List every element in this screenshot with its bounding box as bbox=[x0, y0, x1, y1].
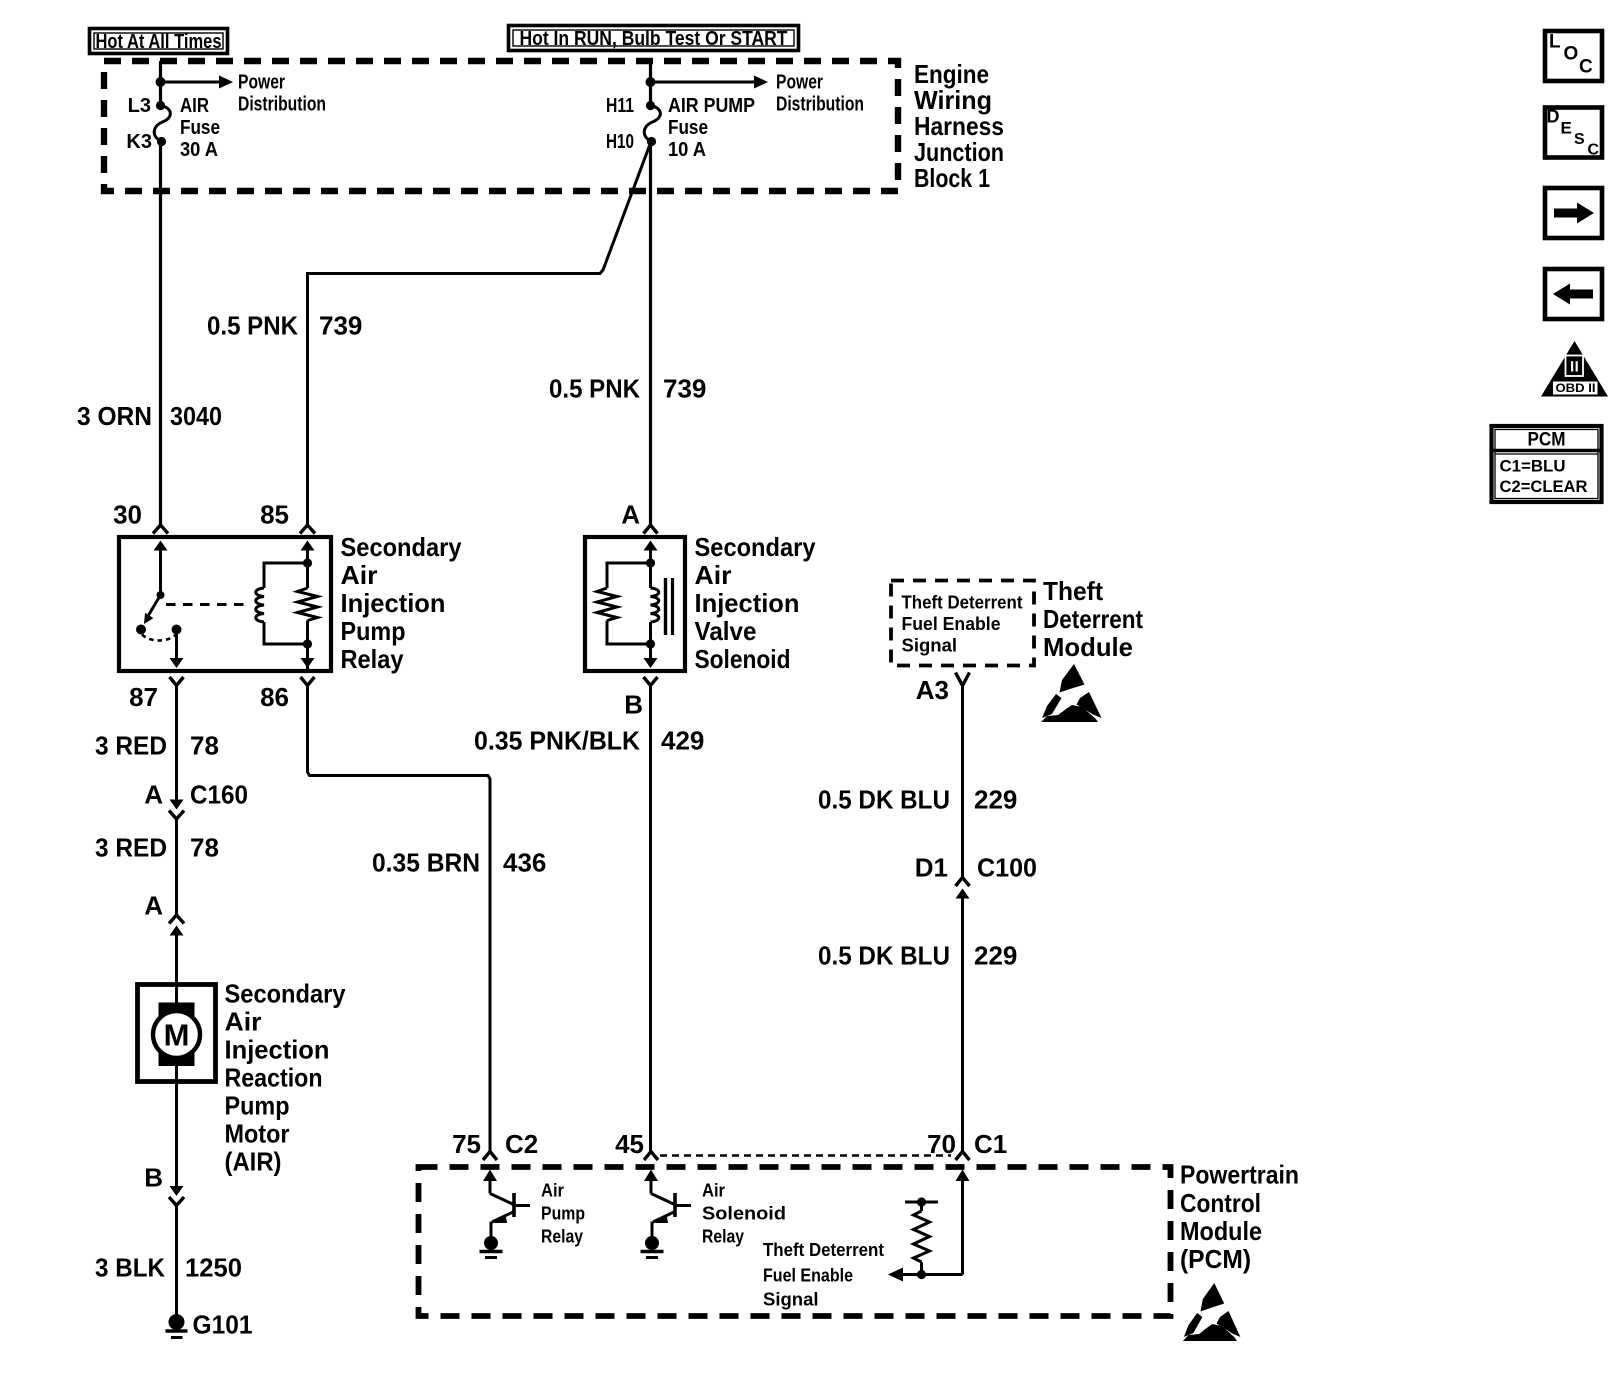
svg-text:1250: 1250 bbox=[185, 1253, 242, 1283]
svg-text:B: B bbox=[624, 690, 643, 720]
svg-text:AIR: AIR bbox=[180, 95, 209, 117]
svg-text:Solenoid: Solenoid bbox=[695, 644, 791, 674]
svg-text:Injection: Injection bbox=[695, 588, 800, 618]
header label: Hot At All Times bbox=[90, 29, 228, 54]
svg-text:L: L bbox=[1549, 32, 1561, 53]
svg-text:Relay: Relay bbox=[702, 1226, 745, 1247]
svg-text:A3: A3 bbox=[916, 675, 949, 705]
sidebar icon: LOC button bbox=[1545, 31, 1602, 81]
svg-text:Secondary: Secondary bbox=[695, 532, 816, 562]
svg-text:Theft Deterrent: Theft Deterrent bbox=[902, 592, 1023, 613]
svg-text:739: 739 bbox=[319, 311, 362, 341]
svg-text:739: 739 bbox=[663, 374, 706, 404]
fuse F2: AIR PUMP Fuse 10 A bbox=[644, 101, 660, 146]
svg-text:(PCM): (PCM) bbox=[1180, 1244, 1251, 1274]
svg-text:O: O bbox=[1564, 44, 1579, 65]
connector chevron: relay pin 87 bbox=[170, 677, 184, 686]
wire: Power Distribution arrow (right) bbox=[651, 76, 769, 89]
resistor R1: theft deterrent fuel enable pull-up bbox=[905, 1197, 938, 1279]
svg-text:Secondary: Secondary bbox=[341, 532, 462, 562]
svg-text:Reaction: Reaction bbox=[225, 1063, 323, 1093]
label: Theft Deterrent Module bbox=[1043, 576, 1143, 662]
svg-text:Signal: Signal bbox=[763, 1289, 819, 1310]
svg-text:0.35 PNK/BLK: 0.35 PNK/BLK bbox=[474, 726, 640, 756]
label: Air Solenoid Relay bbox=[702, 1180, 786, 1247]
svg-text:229: 229 bbox=[974, 785, 1017, 815]
svg-text:3 ORN: 3 ORN bbox=[77, 401, 152, 431]
svg-text:Power: Power bbox=[776, 72, 823, 94]
svg-text:C100: C100 bbox=[977, 853, 1037, 883]
sidebar icon: forward arrow button bbox=[1545, 188, 1602, 238]
svg-text:Secondary: Secondary bbox=[225, 979, 346, 1009]
connector C100 (pin D1) bbox=[956, 878, 970, 899]
label: D1 C100 bbox=[915, 853, 1037, 883]
label: Power Distribution (left) bbox=[238, 72, 326, 116]
connector chevron: PCM pin 70 bbox=[956, 1152, 970, 1161]
svg-text:Pump: Pump bbox=[541, 1203, 585, 1224]
wire: connector B to ground G101 (3 BLK 1250) bbox=[175, 1206, 178, 1317]
relay K1 switch contact node bbox=[136, 625, 146, 635]
label: Air Pump Relay bbox=[541, 1180, 585, 1247]
wire: C100 to PCM pin 70 (0.5 DK BLU 229) bbox=[961, 894, 964, 1152]
svg-text:Module: Module bbox=[1180, 1216, 1262, 1246]
wire: A3 to connector C100 (0.5 DK BLU 229) bbox=[961, 686, 964, 879]
label: 3 BLK 1250 bbox=[95, 1253, 242, 1283]
wire: motor to connector B bbox=[175, 1082, 178, 1186]
motor M1 symbol bbox=[153, 984, 200, 1082]
ESD symbol (theft deterrent module) bbox=[1041, 664, 1102, 722]
label: 3 RED 78 (upper) bbox=[95, 731, 219, 761]
label: AIR Fuse 30 A bbox=[180, 95, 220, 161]
svg-text:78: 78 bbox=[190, 731, 219, 761]
svg-text:Distribution: Distribution bbox=[776, 94, 864, 116]
node: junction at AIR fuse feed bbox=[156, 77, 166, 87]
svg-text:45: 45 bbox=[615, 1129, 644, 1159]
svg-text:B: B bbox=[144, 1163, 163, 1193]
svg-text:OBD II: OBD II bbox=[1556, 383, 1596, 395]
svg-text:Air: Air bbox=[541, 1180, 564, 1201]
svg-text:H10: H10 bbox=[606, 131, 634, 153]
svg-text:429: 429 bbox=[661, 726, 704, 756]
solenoid L1 internal resistor branch bbox=[597, 558, 655, 648]
relay K1 pin 86 internal arrow bbox=[301, 658, 315, 668]
label: Theft Deterrent Fuel Enable Signal (PCM) bbox=[763, 1239, 884, 1310]
svg-text:3040: 3040 bbox=[170, 401, 222, 431]
connector C1 dashed boundary line bbox=[660, 1154, 951, 1156]
svg-text:Theft: Theft bbox=[1043, 576, 1103, 606]
relay K1 pin 30 internal arrow and stem bbox=[154, 541, 168, 596]
svg-text:Theft Deterrent: Theft Deterrent bbox=[763, 1239, 884, 1260]
label: 3 RED 78 (lower) bbox=[95, 833, 219, 863]
label: 0.5 DK BLU 229 (upper) bbox=[818, 785, 1017, 815]
svg-text:Hot At All Times: Hot At All Times bbox=[96, 31, 222, 53]
label: Secondary Air Injection Pump Relay bbox=[341, 532, 462, 674]
connector C160 (pin A) bbox=[169, 800, 184, 820]
connector chevron: solenoid pin B bbox=[644, 677, 658, 686]
svg-text:D1: D1 bbox=[915, 853, 948, 883]
svg-text:C: C bbox=[1588, 142, 1600, 159]
svg-text:S: S bbox=[1574, 131, 1585, 148]
label: 0.35 BRN 436 bbox=[372, 848, 546, 878]
svg-text:E: E bbox=[1561, 119, 1572, 138]
svg-text:AIR PUMP: AIR PUMP bbox=[668, 95, 755, 117]
header label: Hot In RUN, Bulb Test Or START bbox=[509, 26, 799, 51]
connector chevron: relay pin 85 bbox=[300, 525, 315, 534]
svg-text:A: A bbox=[144, 891, 163, 921]
svg-text:Solenoid: Solenoid bbox=[702, 1203, 786, 1224]
svg-text:Fuse: Fuse bbox=[180, 117, 220, 139]
svg-text:Deterrent: Deterrent bbox=[1043, 604, 1143, 634]
wire: AIR PUMP fuse to relay pin 85 (0.5 PNK 739) bbox=[308, 143, 651, 525]
solenoid L1 pin A internal arrow and stem bbox=[644, 541, 658, 564]
label: 3 ORN 3040 bbox=[77, 401, 222, 431]
relay K1 pin 87 internal stem and arrow bbox=[170, 630, 184, 669]
wire: C160 to motor connector (3 RED 78) bbox=[175, 819, 178, 915]
solenoid L1: Secondary Air Injection Valve Solenoid box bbox=[585, 537, 685, 671]
svg-text:H11: H11 bbox=[606, 95, 634, 117]
svg-text:3 RED: 3 RED bbox=[95, 833, 167, 863]
svg-text:D: D bbox=[1547, 107, 1560, 127]
module: Powertrain Control Module PCM (dashed box) bbox=[419, 1167, 1171, 1316]
wire: PCM pin 70 internal with arrow bbox=[956, 1170, 970, 1275]
svg-text:86: 86 bbox=[260, 682, 289, 712]
svg-text:Relay: Relay bbox=[541, 1226, 584, 1247]
relay K1 internal resistor bbox=[298, 545, 318, 671]
wire: battery feed into AIR fuse bbox=[159, 61, 162, 105]
svg-text:Injection: Injection bbox=[341, 588, 446, 618]
svg-text:PCM: PCM bbox=[1528, 430, 1566, 451]
svg-text:C: C bbox=[1579, 57, 1593, 78]
relay K1 switch arm bbox=[144, 591, 165, 624]
wire: fuse K3 to relay pin 30 (3 ORN 3040) bbox=[159, 142, 162, 525]
svg-text:0.35 BRN: 0.35 BRN bbox=[372, 848, 480, 878]
wire: Power Distribution arrow (left) bbox=[161, 76, 234, 89]
label: Theft Deterrent Fuel Enable Signal (in box) bbox=[902, 592, 1023, 656]
svg-text:M: M bbox=[164, 1018, 190, 1053]
svg-text:Module: Module bbox=[1043, 632, 1133, 662]
sidebar legend: PCM connector colors bbox=[1492, 426, 1602, 502]
svg-text:Injection: Injection bbox=[225, 1035, 330, 1065]
svg-text:A: A bbox=[144, 780, 163, 810]
svg-text:C2: C2 bbox=[505, 1129, 538, 1159]
wire: theft deterrent signal with arrow to label bbox=[888, 1268, 963, 1282]
label: 0.35 PNK/BLK 429 bbox=[474, 726, 704, 756]
svg-text:G101: G101 bbox=[193, 1310, 253, 1340]
sidebar icon: back arrow button bbox=[1545, 269, 1602, 319]
relay K1 pin 87 contact node bbox=[172, 625, 182, 635]
relay K1 dashed actuator link bbox=[166, 603, 250, 606]
wire: relay pin 87 to connector C160 (3 RED 78) bbox=[175, 686, 178, 801]
connector chevron: solenoid pin A bbox=[644, 525, 658, 534]
module: Theft Deterrent Fuel Enable Signal (dashed box) bbox=[891, 581, 1034, 666]
relay K1 pin 85 internal arrow bbox=[301, 541, 315, 551]
relay K1 dashed contact arc bbox=[142, 635, 176, 641]
svg-text:3 BLK: 3 BLK bbox=[95, 1253, 165, 1283]
module label: Engine Wiring Harness Junction Block 1 bbox=[914, 59, 1004, 193]
connector: motor pin A bbox=[169, 915, 184, 984]
svg-text:Relay: Relay bbox=[341, 644, 404, 674]
sidebar icon: OBD II triangle bbox=[1541, 341, 1608, 397]
svg-text:0.5 DK BLU: 0.5 DK BLU bbox=[818, 785, 950, 815]
svg-text:A: A bbox=[621, 500, 640, 530]
junction block: Engine Wiring Harness Junction Block 1 (dashed box) bbox=[104, 61, 898, 191]
svg-text:Air: Air bbox=[695, 560, 732, 590]
svg-text:Valve: Valve bbox=[695, 616, 757, 646]
svg-text:Air: Air bbox=[702, 1180, 725, 1201]
svg-text:C160: C160 bbox=[190, 780, 248, 810]
motor M1: Secondary Air Injection Reaction Pump Motor box bbox=[138, 985, 216, 1082]
svg-text:Signal: Signal bbox=[902, 635, 958, 656]
label: Powertrain Control Module (PCM) bbox=[1180, 1160, 1299, 1275]
sidebar icon: DESC button bbox=[1545, 107, 1602, 159]
svg-text:75: 75 bbox=[452, 1129, 481, 1159]
label: AIR PUMP Fuse 10 A bbox=[668, 95, 755, 161]
svg-text:85: 85 bbox=[260, 500, 289, 530]
svg-text:78: 78 bbox=[190, 833, 219, 863]
svg-text:C1: C1 bbox=[974, 1129, 1007, 1159]
transistor Q1: air pump relay driver bbox=[480, 1170, 531, 1258]
svg-text:10 A: 10 A bbox=[668, 139, 706, 161]
svg-text:Air: Air bbox=[341, 560, 378, 590]
relay K1 coil bbox=[256, 558, 312, 648]
svg-text:(AIR): (AIR) bbox=[225, 1147, 282, 1177]
connector chevron: relay pin 30 bbox=[153, 525, 168, 534]
solenoid L1 coil winding bbox=[651, 563, 659, 644]
svg-text:Power: Power bbox=[238, 72, 285, 94]
svg-text:87: 87 bbox=[129, 682, 158, 712]
svg-text:Motor: Motor bbox=[225, 1119, 290, 1149]
svg-text:Distribution: Distribution bbox=[238, 94, 326, 116]
solenoid L1 pin B internal stem and arrow bbox=[644, 644, 658, 668]
connector chevron: theft module pin A3 bbox=[956, 673, 970, 686]
ground G101 bbox=[166, 1314, 188, 1338]
label: 0.5 DK BLU 229 (lower) bbox=[818, 941, 1017, 971]
label: Secondary Air Injection Reaction Pump Motor (AIR) bbox=[225, 979, 346, 1177]
label: Power Distribution (right) bbox=[776, 72, 864, 116]
transistor Q2: air solenoid relay driver bbox=[641, 1170, 692, 1258]
svg-text:Control: Control bbox=[1180, 1188, 1261, 1218]
svg-text:Pump: Pump bbox=[341, 616, 406, 646]
relay K1: Secondary Air Injection Pump Relay box bbox=[119, 537, 331, 671]
svg-text:0.5 PNK: 0.5 PNK bbox=[207, 311, 298, 341]
label: 0.5 PNK 739 (solenoid branch) bbox=[549, 374, 706, 404]
svg-text:Hot In RUN, Bulb Test Or START: Hot In RUN, Bulb Test Or START bbox=[520, 28, 788, 50]
connector chevron: relay pin 86 bbox=[301, 677, 315, 686]
wire: relay pin 86 to PCM pin 75 (0.35 BRN 436) bbox=[308, 686, 491, 1152]
svg-text:436: 436 bbox=[503, 848, 546, 878]
svg-text:Block 1: Block 1 bbox=[914, 163, 990, 193]
svg-text:C1=BLU: C1=BLU bbox=[1500, 458, 1566, 476]
label: 0.5 PNK 739 (relay branch) bbox=[207, 311, 362, 341]
fuse F1: AIR Fuse 30 A bbox=[154, 101, 170, 146]
svg-text:3 RED: 3 RED bbox=[95, 731, 167, 761]
connector: motor pin B bbox=[169, 1186, 184, 1206]
svg-text:Fuse: Fuse bbox=[668, 117, 708, 139]
connector chevron: PCM pin 45 bbox=[644, 1152, 658, 1161]
wire: ignition feed into AIR PUMP fuse bbox=[649, 61, 652, 105]
svg-text:C2=CLEAR: C2=CLEAR bbox=[1500, 478, 1588, 496]
label: A C160 bbox=[144, 780, 248, 810]
svg-text:Pump: Pump bbox=[225, 1091, 290, 1121]
svg-text:Fuel Enable: Fuel Enable bbox=[902, 613, 1001, 634]
svg-text:30: 30 bbox=[113, 500, 142, 530]
svg-text:Fuel Enable: Fuel Enable bbox=[763, 1265, 853, 1286]
svg-text:Powertrain: Powertrain bbox=[1180, 1160, 1299, 1190]
svg-text:0.5 DK BLU: 0.5 DK BLU bbox=[818, 941, 950, 971]
wire: solenoid pin B to PCM pin 45 (0.35 PNK/BLK 429) bbox=[649, 686, 652, 1152]
svg-text:30 A: 30 A bbox=[180, 139, 218, 161]
node: junction at AIR PUMP fuse feed bbox=[646, 77, 656, 87]
solenoid L1 core bars bbox=[666, 578, 673, 635]
svg-text:L3: L3 bbox=[128, 95, 151, 117]
svg-text:0.5 PNK: 0.5 PNK bbox=[549, 374, 640, 404]
connector chevron: PCM pin 75 bbox=[483, 1152, 497, 1161]
svg-text:229: 229 bbox=[974, 941, 1017, 971]
svg-text:K3: K3 bbox=[126, 131, 152, 153]
svg-text:Air: Air bbox=[225, 1007, 262, 1037]
label: Secondary Air Injection Valve Solenoid bbox=[695, 532, 816, 674]
wire: AIR PUMP fuse to solenoid pin A (0.5 PNK 739) bbox=[649, 142, 652, 525]
ESD symbol (PCM) bbox=[1183, 1283, 1240, 1341]
